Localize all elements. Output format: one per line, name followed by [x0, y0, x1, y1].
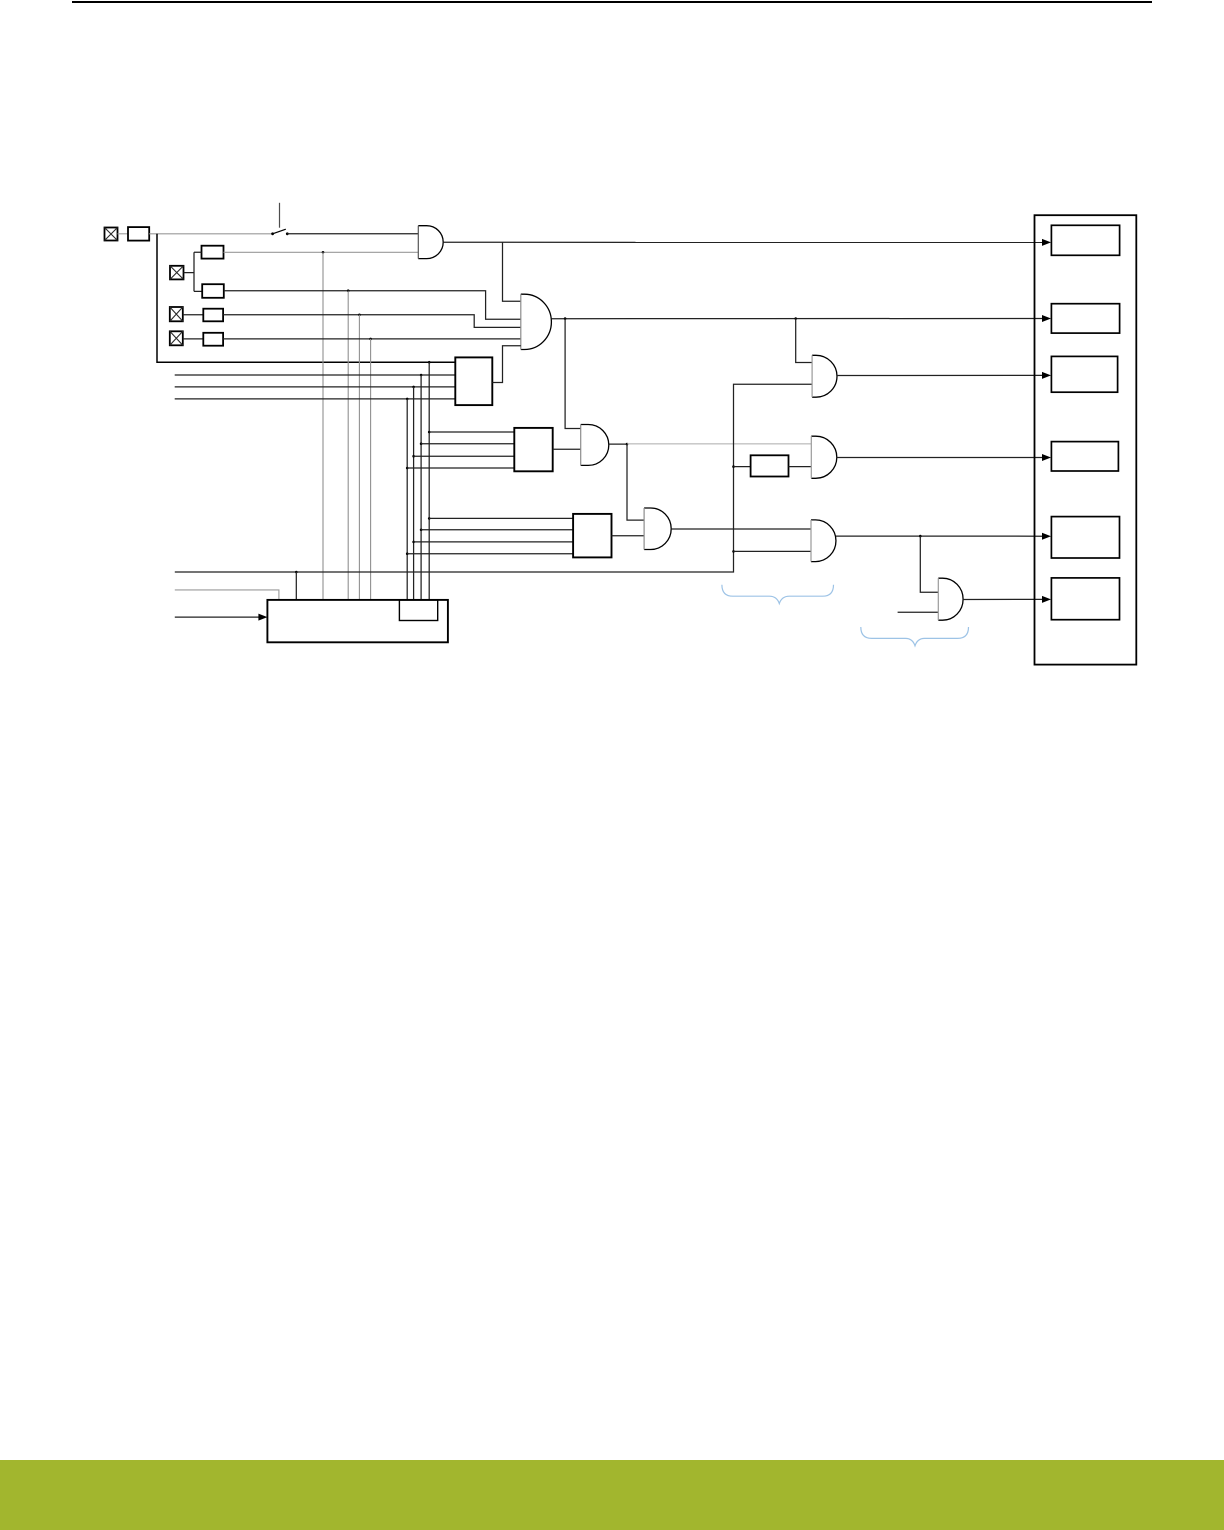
decoder box B [514, 428, 552, 471]
wire X3 to R3 [183, 314, 204, 316]
AND gate G2 [521, 294, 552, 349]
gray wire into mux top [175, 590, 279, 600]
wire branch G7 to G8 input 1 [920, 536, 938, 592]
wire V2 to box B input 2 [421, 443, 514, 445]
switch blade [273, 229, 286, 234]
wire tap long wire into mux top [295, 572, 297, 600]
switch contact dot [286, 232, 289, 235]
junction dot V1 to box C [428, 517, 431, 520]
junction dot G2 out branch B [794, 317, 797, 320]
junction dot V4 to box C [406, 552, 409, 555]
bus line 2 to box A [175, 374, 456, 376]
wire R1 to switch [149, 233, 272, 235]
delay box D [751, 455, 789, 476]
wire G5 output to result box B3 [837, 374, 1043, 376]
switch pivot dot [271, 232, 274, 235]
register box R2b [202, 284, 224, 298]
junction dot busline3 [412, 386, 415, 389]
wire G2 output to result box B2 [551, 318, 1043, 320]
wire box B output to G3 input 2 [553, 448, 581, 450]
wire branch G2 to G5 input 1 [796, 319, 812, 363]
result box B1 [1051, 225, 1119, 255]
arrowhead into B3 [1042, 372, 1051, 379]
junction dot G7 out branch [919, 535, 922, 538]
long feedback wire from mux to G5 input 2 [175, 384, 812, 572]
junction dot V3 to box B [412, 455, 415, 458]
switch tick [279, 203, 281, 228]
output register block outer [1035, 215, 1137, 664]
wire box D output to G6 input 2 [789, 466, 812, 468]
wire switch to AND gate G1 [287, 233, 418, 235]
result box B2 [1051, 304, 1119, 333]
wire R3 to G2 input 3 [223, 315, 521, 328]
AND gate G3 [581, 425, 609, 466]
wire stub G8 input 2 [898, 611, 939, 613]
junction dot V4 to box B [406, 467, 409, 470]
wire box C output to G4 input 2 [612, 535, 645, 537]
bus line 3 to box A [175, 386, 456, 388]
junction dot feedback to delay box D [732, 465, 735, 468]
wire pad X1 to register R1 [118, 233, 129, 235]
junction dot tap4 [369, 338, 372, 341]
blue brace 1 [722, 585, 834, 604]
mux box [267, 600, 448, 642]
wire branch G3 to G4 input 1 [627, 444, 644, 520]
junction dot tap3 [358, 314, 361, 317]
footer green bar [0, 1460, 1224, 1530]
wire V3 to box B input 3 [414, 455, 515, 457]
register box R4 [203, 333, 223, 346]
AND gate G7 [811, 520, 836, 562]
wire G8 output to result box B6 [963, 598, 1043, 600]
wire feedback to G7 input 2 [734, 550, 812, 552]
wire G1 output to result box B1 [443, 241, 1043, 243]
decoder box A [455, 357, 492, 405]
wire V3 to box C input 3 [414, 541, 573, 543]
junction dot busline2 [420, 374, 423, 377]
wire V4 to box B input 4 [407, 467, 514, 469]
gray vertical tap4 to decoder [370, 339, 372, 600]
junction dot tap2 [347, 289, 350, 292]
wire R2b to G2 input 2 [224, 291, 521, 320]
wire V1 to box B input 1 [429, 431, 514, 433]
gray vertical tap1 to decoder [322, 252, 324, 600]
wire V1 to box C input 1 [429, 517, 573, 519]
input pad X3 [170, 307, 183, 321]
result box B4 [1051, 442, 1118, 471]
junction dot tap1 [322, 251, 325, 254]
input pad X1 [105, 228, 118, 241]
wire X2 fork to R2a and R2b [184, 252, 203, 291]
blue brace 2 [861, 627, 969, 646]
wire G4 output to G7 input 1 [671, 528, 811, 530]
gray vertical tap2 to decoder [347, 291, 349, 600]
result box B3 [1051, 356, 1117, 392]
wire G7 output to result box B5 [836, 535, 1043, 537]
register box R2a [202, 246, 224, 259]
bus line 4 to box A [175, 398, 456, 400]
input pad X2 [170, 266, 184, 280]
gray wire G3 to G6 input 1 [627, 443, 811, 445]
mux sub box [399, 600, 437, 621]
wire G3 output stub [609, 443, 627, 445]
wire L-route to box A input 1 [157, 234, 455, 362]
junction dot V3 to box C [412, 541, 415, 544]
result box B5 [1051, 517, 1119, 558]
register box R1 [128, 227, 149, 241]
wire V4 to box C input 4 [407, 553, 573, 555]
arrowhead into B2 [1042, 315, 1051, 322]
wire box A output to G2 input 5 [492, 346, 521, 383]
result box B6 [1051, 578, 1119, 620]
junction dot long wire to mux [295, 571, 298, 574]
AND gate G4 [644, 508, 671, 550]
vertical select line V4 [406, 399, 408, 600]
gray vertical tap3 to decoder [358, 315, 360, 600]
register box R3 [203, 309, 223, 322]
wire branch G1 to G2 input 1 [503, 242, 521, 301]
wire G6 output to result box B4 [837, 457, 1043, 459]
arrowhead into B4 [1042, 454, 1051, 461]
junction dot V2 to box B [420, 442, 423, 445]
wire V2 to box C input 2 [421, 529, 573, 531]
junction dot V2 to box C [420, 529, 423, 532]
wire branch G2 to G3 input 1 [565, 319, 581, 429]
input pad X4 [170, 331, 183, 345]
arrowhead into B6 [1042, 596, 1051, 603]
wire X4 to R4 [183, 338, 204, 340]
wire R2a to G1 lower input [224, 251, 419, 253]
arrowhead into B1 [1042, 239, 1051, 246]
wire R4 to G2 input 4 [223, 338, 521, 340]
AND gate G1 [418, 226, 443, 259]
junction dot busline1 [428, 361, 431, 364]
wire feedback to delay box D [734, 466, 751, 468]
AND gate G6 [811, 436, 837, 478]
decoder box C [573, 514, 611, 558]
junction dot feedback to G7 [732, 550, 735, 553]
wire arrow into mux left [175, 616, 260, 618]
AND gate G5 [812, 355, 837, 397]
vertical select line V3 [413, 387, 415, 600]
arrowhead into B5 [1042, 533, 1051, 540]
junction dot busline4 [406, 398, 409, 401]
junction dot V1 to box B [428, 431, 431, 434]
vertical select line V2 [420, 375, 422, 600]
junction dot G2 out branch A [564, 317, 567, 320]
junction dot G3 out [626, 443, 629, 446]
AND gate G8 [938, 578, 963, 620]
arrowhead into mux [258, 614, 267, 621]
top header rule [72, 1, 1152, 3]
vertical select line V1 [428, 362, 430, 600]
